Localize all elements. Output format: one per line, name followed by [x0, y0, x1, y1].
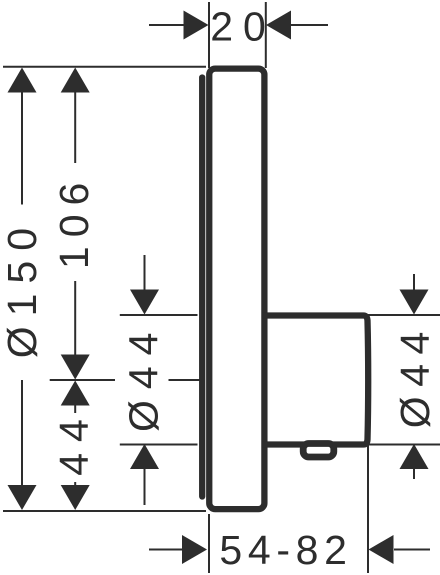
- wire dim line 106 lower: [74, 281, 76, 355]
- arrow D44 right lower: [400, 444, 429, 469]
- svg-text:44: 44: [51, 408, 97, 476]
- handle bottom tab button: [303, 444, 334, 458]
- wire extension line handle bottom left: [120, 444, 198, 446]
- svg-text:Ø44: Ø44: [392, 322, 438, 428]
- wire dim line 54-82 left: [149, 549, 183, 551]
- arrow D150 bottom: [8, 485, 37, 510]
- wire extension line handle top right: [363, 314, 440, 316]
- wire extension line 20 left vertical: [208, 2, 210, 68]
- svg-text:106: 106: [51, 174, 97, 269]
- wire centerline handle axis right segment: [169, 379, 200, 381]
- wire extension line 20 right vertical: [265, 2, 267, 68]
- wire extension line top horizontal: [3, 66, 206, 68]
- wire extension line handle bottom right: [363, 444, 440, 446]
- wire dim line D150 upper: [21, 91, 23, 205]
- wire dim line D44 left lower: [144, 469, 146, 505]
- svg-text:Ø150: Ø150: [0, 218, 45, 358]
- wire centerline handle axis left segment: [50, 379, 115, 381]
- wire dim line 44 upper: [74, 405, 76, 413]
- wire dim line 20 right: [291, 24, 328, 26]
- arrow 44 bottom: [61, 485, 90, 510]
- arrow 106 top: [61, 68, 90, 93]
- arrow D44 left upper: [130, 290, 159, 315]
- wire dim line D150 lower: [21, 380, 23, 486]
- svg-text:54-82: 54-82: [219, 527, 352, 573]
- wire dim line 44 lower: [74, 482, 76, 486]
- arrow D150 top: [8, 68, 37, 93]
- flange back sleeve: [199, 78, 205, 497]
- wire extension line bottom horizontal: [3, 510, 206, 512]
- svg-text:20: 20: [210, 4, 276, 50]
- wire dim line D44 left upper: [144, 255, 146, 290]
- wire dim line 54-82 right: [394, 549, 430, 551]
- arrow 54-82 left: [182, 535, 207, 564]
- wire dim line 20 left: [149, 24, 184, 26]
- arrow 44 top: [61, 381, 90, 406]
- arrow D44 right upper: [400, 290, 429, 315]
- arrow 20 left: [184, 11, 209, 40]
- handle knob side view: [262, 316, 368, 445]
- arrow 106 bottom: [61, 355, 90, 380]
- arrow 54-82 right: [369, 535, 394, 564]
- wire dim line 106 upper: [74, 91, 76, 163]
- wire extension line handle top left: [120, 314, 198, 316]
- wire dim line D44 right upper: [413, 274, 415, 290]
- wire extension line 54-82 right vertical: [367, 444, 369, 573]
- wire dim line D44 right lower: [413, 469, 415, 479]
- arrow 20 right: [266, 11, 291, 40]
- escutcheon plate side view: [209, 69, 264, 510]
- arrow D44 left lower: [130, 444, 159, 469]
- wire extension line 54-82 left vertical: [208, 514, 210, 573]
- svg-text:Ø44: Ø44: [121, 322, 167, 433]
